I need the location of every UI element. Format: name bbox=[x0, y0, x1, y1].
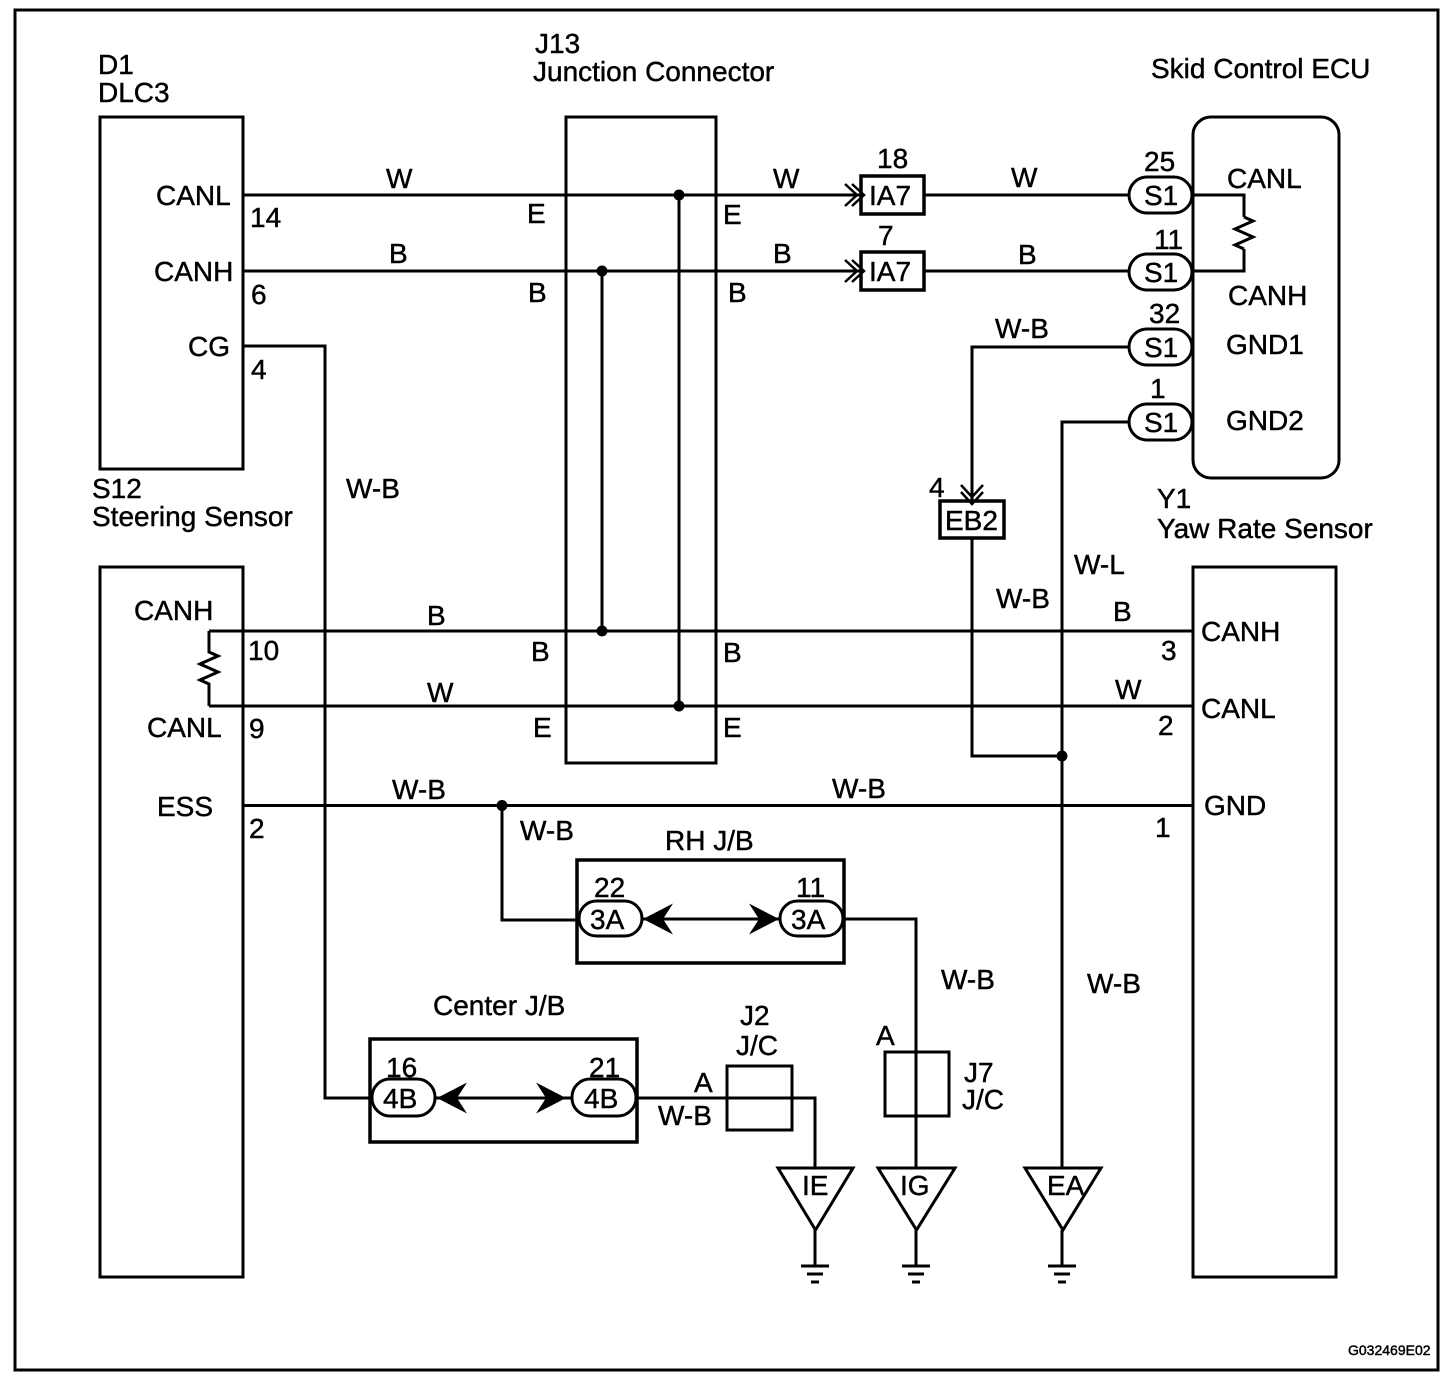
svg-text:4: 4 bbox=[929, 472, 945, 503]
arrow left RH J/B bbox=[643, 904, 673, 935]
svg-text:GND: GND bbox=[1204, 790, 1266, 821]
svg-text:CANH: CANH bbox=[154, 256, 233, 287]
svg-text:GND1: GND1 bbox=[1226, 329, 1304, 360]
oval S1 pin1 bbox=[1129, 404, 1192, 440]
oval S1 pin25 bbox=[1129, 177, 1192, 213]
svg-text:2: 2 bbox=[249, 813, 265, 844]
svg-text:Junction Connector: Junction Connector bbox=[533, 56, 774, 87]
connector IA7 (7) box bbox=[861, 252, 924, 290]
svg-text:B: B bbox=[528, 277, 547, 308]
Center J/B box bbox=[370, 1039, 637, 1142]
svg-text:B: B bbox=[389, 238, 408, 269]
connector IA7 (18) box bbox=[861, 176, 924, 214]
wire CANH bottom: S12 pin10 to Yaw pin3 bbox=[209, 630, 1193, 633]
junction dot J13 CANL top bbox=[674, 190, 685, 201]
svg-text:B: B bbox=[773, 238, 792, 269]
oval 4B pin16 bbox=[372, 1079, 435, 1116]
svg-text:CANH: CANH bbox=[134, 595, 213, 626]
svg-text:A: A bbox=[694, 1067, 713, 1098]
svg-text:W: W bbox=[1011, 162, 1038, 193]
svg-text:4B: 4B bbox=[584, 1083, 618, 1114]
svg-text:E: E bbox=[723, 199, 742, 230]
wire ground stem EA bbox=[1061, 1230, 1064, 1266]
connector S12 steering sensor box bbox=[100, 567, 243, 1277]
arrow left Center J/B bbox=[437, 1083, 467, 1114]
svg-text:1: 1 bbox=[1155, 812, 1171, 843]
svg-text:CANH: CANH bbox=[1201, 616, 1280, 647]
svg-text:B: B bbox=[1113, 596, 1132, 627]
svg-text:DLC3: DLC3 bbox=[98, 77, 170, 108]
svg-text:Skid Control ECU: Skid Control ECU bbox=[1151, 53, 1370, 84]
arrow right Center J/B bbox=[536, 1083, 566, 1114]
svg-text:S1: S1 bbox=[1144, 407, 1178, 438]
oval 3A pin22 bbox=[579, 901, 642, 936]
svg-text:A: A bbox=[876, 1020, 895, 1051]
connector J13 junction connector box bbox=[566, 117, 716, 763]
ground symbol IG bbox=[902, 1266, 930, 1282]
svg-text:3A: 3A bbox=[791, 904, 826, 935]
ground triangle IG bbox=[878, 1168, 955, 1230]
svg-text:ESS: ESS bbox=[157, 791, 213, 822]
svg-text:S1: S1 bbox=[1144, 180, 1178, 211]
svg-text:B: B bbox=[531, 636, 550, 667]
svg-text:B: B bbox=[1018, 239, 1037, 270]
svg-text:Y1: Y1 bbox=[1157, 483, 1191, 514]
RH J/B box bbox=[577, 860, 844, 963]
wire ESS W-B: S12 pin2 to Yaw GND pin1 bbox=[243, 804, 1193, 807]
svg-text:CANL: CANL bbox=[1227, 163, 1302, 194]
svg-text:E: E bbox=[527, 198, 546, 229]
svg-text:W-B: W-B bbox=[941, 964, 995, 995]
svg-text:18: 18 bbox=[877, 143, 908, 174]
J2 J/C box bbox=[727, 1066, 792, 1130]
svg-text:IA7: IA7 bbox=[869, 180, 911, 211]
svg-text:S1: S1 bbox=[1144, 332, 1178, 363]
wire ECU terminating loop CANL side bbox=[1192, 195, 1244, 217]
wire W-L ECU GND2 down to EA bbox=[1062, 422, 1129, 1167]
svg-text:B: B bbox=[723, 637, 742, 668]
chevron arrow into IA7 18 bbox=[845, 184, 857, 206]
ground symbol IE bbox=[801, 1266, 829, 1282]
svg-text:22: 22 bbox=[594, 872, 625, 903]
wire EB2 to junction on W-L line bbox=[972, 538, 1062, 756]
oval S1 pin11 bbox=[1129, 254, 1192, 290]
svg-text:EB2: EB2 bbox=[945, 505, 998, 536]
svg-text:Yaw Rate Sensor: Yaw Rate Sensor bbox=[1157, 513, 1373, 544]
svg-text:W-B: W-B bbox=[346, 473, 400, 504]
svg-text:E: E bbox=[533, 712, 552, 743]
svg-text:10: 10 bbox=[248, 635, 279, 666]
svg-text:W-B: W-B bbox=[658, 1100, 712, 1131]
svg-text:W: W bbox=[386, 163, 413, 194]
wire W-B to ECU GND1 via EB2 bbox=[972, 347, 1129, 501]
svg-text:RH J/B: RH J/B bbox=[665, 825, 754, 856]
svg-text:J13: J13 bbox=[535, 28, 580, 59]
svg-text:14: 14 bbox=[250, 202, 281, 233]
svg-text:Steering Sensor: Steering Sensor bbox=[92, 501, 293, 532]
J7 J/C box bbox=[885, 1052, 949, 1116]
svg-text:J2: J2 bbox=[740, 1000, 770, 1031]
svg-text:11: 11 bbox=[796, 872, 825, 903]
wire J13 internal bus W bbox=[678, 195, 681, 706]
svg-text:B: B bbox=[427, 600, 446, 631]
arrow right RH J/B bbox=[749, 904, 779, 935]
Skid Control ECU box bbox=[1193, 117, 1339, 478]
wire RH J/B out through J7 to IG bbox=[843, 919, 916, 1167]
svg-text:1: 1 bbox=[1150, 373, 1166, 404]
svg-text:2: 2 bbox=[1158, 710, 1174, 741]
wire ECU terminating loop CANH side bbox=[1192, 249, 1244, 271]
wire CANL top: DLC3 pin14 to ECU S1 bbox=[243, 194, 1129, 197]
svg-text:W: W bbox=[773, 163, 800, 194]
svg-text:E: E bbox=[723, 712, 742, 743]
svg-text:G032469E02: G032469E02 bbox=[1348, 1342, 1431, 1358]
svg-text:3: 3 bbox=[1161, 635, 1177, 666]
svg-text:CANL: CANL bbox=[1201, 693, 1276, 724]
svg-text:W-B: W-B bbox=[832, 773, 886, 804]
resistor S12 internal bbox=[200, 631, 218, 706]
svg-text:W-B: W-B bbox=[995, 313, 1049, 344]
svg-text:6: 6 bbox=[251, 279, 267, 310]
oval 3A pin11 bbox=[780, 901, 843, 936]
junction dot J13 CANH bottom bbox=[597, 626, 608, 637]
svg-text:W-B: W-B bbox=[1087, 968, 1141, 999]
ground triangle EA bbox=[1025, 1168, 1101, 1230]
Y1 yaw rate sensor box bbox=[1193, 567, 1336, 1277]
svg-text:W-B: W-B bbox=[996, 583, 1050, 614]
oval 4B pin21 bbox=[572, 1079, 636, 1116]
svg-text:4: 4 bbox=[251, 354, 267, 385]
svg-text:7: 7 bbox=[878, 220, 894, 251]
wire CANH top: DLC3 pin6 to ECU S1 bbox=[243, 270, 1129, 273]
svg-text:CANH: CANH bbox=[1228, 280, 1307, 311]
ground triangle IE bbox=[778, 1168, 853, 1230]
svg-text:4B: 4B bbox=[383, 1083, 417, 1114]
svg-text:W: W bbox=[427, 677, 454, 708]
wire J13 internal bus B bbox=[601, 271, 604, 631]
svg-text:21: 21 bbox=[589, 1052, 620, 1083]
junction dot W-L / EB2 bbox=[1057, 751, 1068, 762]
connector EB2 box bbox=[940, 501, 1004, 538]
svg-text:S12: S12 bbox=[92, 473, 142, 504]
svg-text:9: 9 bbox=[249, 713, 265, 744]
svg-text:W: W bbox=[1115, 674, 1142, 705]
wire ground stem IG bbox=[915, 1230, 918, 1266]
svg-text:16: 16 bbox=[386, 1052, 417, 1083]
wire CANL bottom: S12 pin9 to Yaw pin2 bbox=[209, 705, 1193, 708]
svg-text:W-B: W-B bbox=[520, 815, 574, 846]
resistor ECU internal 120ohm bbox=[1235, 217, 1253, 249]
wire ESS drop to RH J/B 3A bbox=[502, 806, 579, 921]
svg-text:CANL: CANL bbox=[147, 712, 222, 743]
chevron arrow into IA7 7 bbox=[845, 260, 857, 282]
svg-text:J/C: J/C bbox=[962, 1084, 1004, 1115]
svg-text:11: 11 bbox=[1154, 224, 1183, 255]
svg-text:W-B: W-B bbox=[392, 774, 446, 805]
svg-text:IG: IG bbox=[900, 1170, 930, 1201]
connector D1 DLC3 box bbox=[100, 117, 243, 469]
junction dot J13 CANL bottom bbox=[674, 701, 685, 712]
svg-text:S1: S1 bbox=[1144, 257, 1178, 288]
wire between 3A ovals bbox=[642, 918, 780, 921]
svg-text:GND2: GND2 bbox=[1226, 405, 1304, 436]
svg-text:J/C: J/C bbox=[736, 1030, 778, 1061]
svg-text:IE: IE bbox=[802, 1170, 828, 1201]
svg-text:CANL: CANL bbox=[156, 180, 231, 211]
ground symbol EA bbox=[1048, 1266, 1076, 1282]
svg-text:B: B bbox=[728, 277, 747, 308]
svg-text:W-L: W-L bbox=[1074, 549, 1125, 580]
svg-text:Center J/B: Center J/B bbox=[433, 990, 565, 1021]
svg-text:D1: D1 bbox=[98, 49, 134, 80]
wire between 4B ovals bbox=[435, 1097, 572, 1100]
svg-text:25: 25 bbox=[1144, 146, 1175, 177]
wire Center J/B out through J2 to IE bbox=[636, 1098, 815, 1167]
wire CG W-B: DLC3 pin4 down to Center J/B bbox=[243, 346, 371, 1098]
svg-text:32: 32 bbox=[1149, 298, 1180, 329]
wire ground stem IE bbox=[814, 1230, 817, 1266]
oval S1 pin32 bbox=[1129, 329, 1192, 365]
svg-text:EA: EA bbox=[1047, 1170, 1085, 1201]
svg-text:3A: 3A bbox=[590, 904, 625, 935]
svg-text:IA7: IA7 bbox=[869, 256, 911, 287]
junction dot J13 CANH top bbox=[597, 266, 608, 277]
svg-text:CG: CG bbox=[188, 331, 230, 362]
junction dot ESS bbox=[497, 800, 508, 811]
chevron arrow into EB2 bbox=[961, 485, 983, 497]
